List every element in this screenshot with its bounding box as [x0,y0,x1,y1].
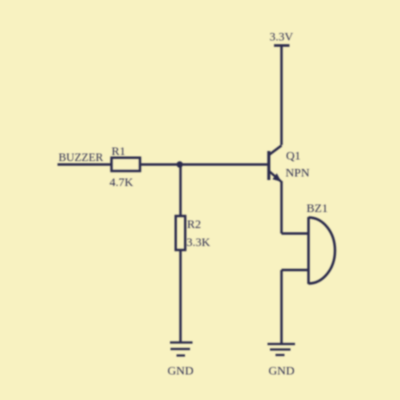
wire R2 to ground [179,250,181,342]
svg-text:R2: R2 [187,217,201,231]
svg-text:R1: R1 [112,144,126,158]
wire buzzer top lead [282,232,309,234]
svg-text:3.3V: 3.3V [270,30,294,44]
transistor Q1 collector diagonal [270,146,282,155]
svg-text:3.3K: 3.3K [187,235,211,249]
ground symbol right [268,344,296,355]
wire junction to R2 [179,165,181,217]
buzzer BZ1 flat edge [307,217,310,284]
svg-text:GND: GND [168,364,194,378]
svg-text:Q1: Q1 [286,149,301,163]
wire R1 to base [140,163,269,165]
node junction dot [177,161,183,167]
ground symbol left [170,343,193,356]
wire buzzer input horizontal [58,163,112,165]
svg-text:BZ1: BZ1 [307,201,328,215]
transistor Q1 emitter diagonal [270,172,282,182]
svg-text:4.7K: 4.7K [110,175,134,189]
svg-text:BUZZER: BUZZER [59,152,104,164]
transistor Q1 emitter arrow [273,173,282,182]
wire buzzer bottom lead [282,269,309,271]
svg-text:GND: GND [269,364,295,378]
wire collector vertical from 3.3V [280,46,282,145]
buzzer BZ1 dome arc [309,218,335,284]
transistor Q1 base bar [267,151,270,180]
svg-text:NPN: NPN [286,166,310,180]
resistor R1 body [112,158,141,171]
power bar 3.3V rail [274,44,290,47]
wire emitter vertical to buzzer [280,181,282,234]
wire buzzer to ground [280,270,282,343]
resistor R2 body [176,216,186,250]
